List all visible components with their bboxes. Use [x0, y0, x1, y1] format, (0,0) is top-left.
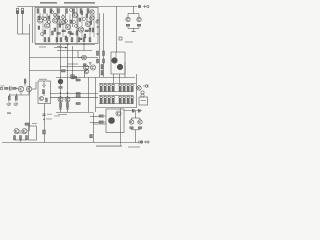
transistor Q32: [22, 129, 27, 134]
transistor Qf23: [44, 18, 47, 21]
wire mid vertical v67: [67, 44, 69, 112]
label under box mid: [57, 46, 62, 47]
wire mid vertical v84: [84, 71, 86, 78]
wire box internal v5: [72, 13, 74, 27]
wire mid rail F top output bus: [56, 77, 135, 79]
node dot G1: [60, 92, 61, 93]
wire array row1 bottom bus: [99, 91, 134, 93]
transistor output T2 with emitter resistor: [104, 84, 107, 91]
wire preamp column 7: [81, 14, 83, 37]
wire left input line R: [22, 13, 24, 34]
transistor output T5 with emitter resistor: [119, 84, 122, 91]
label x44: [46, 118, 52, 121]
resistor top row R1: [37, 9, 39, 14]
wire right rail lower: [136, 74, 138, 108]
resistor Rf16: [38, 26, 40, 29]
resistor R33: [99, 121, 103, 123]
wire array drop: [127, 82, 129, 85]
wire preamp column 4: [62, 14, 64, 37]
wire Q11 pair join: [128, 26, 139, 31]
resistor top row R5: [66, 9, 68, 14]
diode D2: [79, 38, 82, 40]
wire top supply rail: [17, 6, 137, 8]
resistor R22: [67, 103, 69, 107]
label mid rail D: [67, 64, 78, 65]
wire left input line L: [17, 13, 19, 34]
inductor L1: [141, 91, 144, 97]
transistor Q4: [59, 19, 64, 24]
wire bl wiring: [14, 128, 30, 142]
resistor bottom row Rb7: [78, 38, 80, 42]
transistor output B5 with emitter resistor: [119, 96, 122, 103]
wire mid rail G: [50, 93, 98, 95]
resistor R19: [101, 71, 103, 76]
transistor Qf2: [62, 16, 65, 19]
transistor Qf12: [70, 9, 73, 12]
transistor output T1 with emitter resistor: [100, 84, 103, 91]
resistor Rf3: [70, 20, 72, 23]
resistor bottom row Rb6: [71, 38, 73, 42]
wire input chain: [16, 88, 19, 90]
wire servo line 2: [90, 122, 99, 124]
resistor top row R3: [50, 9, 52, 14]
transistor output B4 with emitter resistor: [112, 96, 115, 103]
transistor output T3 with emitter resistor: [108, 84, 111, 91]
resistor bottom row Rb5: [66, 38, 68, 42]
wire preamp column 9: [93, 14, 95, 37]
wire box internal v4: [65, 13, 67, 24]
transistor Q19 pre-driver: [65, 97, 70, 102]
resistor top row R4: [58, 9, 60, 14]
diode D8 cross: [66, 108, 69, 110]
label mid bottom: [54, 115, 60, 118]
label under rail I: [58, 113, 67, 116]
node mid junction 1: [67, 43, 68, 44]
transistor Q3: [52, 18, 57, 23]
wire array row2 bottom bus: [99, 103, 134, 105]
connector speaker output: [143, 85, 148, 88]
wire vas vertical 2: [103, 13, 105, 77]
box bias network outline: [38, 81, 51, 104]
resistor bottom row Rb8: [83, 38, 85, 42]
wire mid vertical v72: [72, 46, 74, 78]
capacitor C8 polarity: [132, 111, 134, 113]
node dot H1: [60, 96, 61, 97]
transistor Q2: [44, 23, 49, 28]
wire feedback arrow: [54, 47, 67, 49]
resistor R20: [72, 76, 77, 78]
capacitor C2: [119, 37, 133, 43]
capacitor C1: [70, 33, 73, 35]
transistor Q30: [138, 120, 142, 124]
wire mid rail H: [50, 96, 98, 98]
transistor Q15: [90, 65, 95, 70]
wire bottom crossing: [120, 142, 122, 146]
resistor Rf7: [90, 21, 92, 24]
capacitor C4 tick: [97, 26, 100, 28]
resistor R41: [76, 31, 78, 35]
wire mid vertical v60: [60, 44, 62, 112]
wire vas link: [78, 51, 82, 58]
transistor Q20: [84, 69, 88, 73]
transistor Q24 driver: [112, 58, 118, 64]
node dot H2: [67, 96, 68, 97]
resistor top row R2: [44, 9, 46, 14]
transistor Qf10: [75, 25, 78, 28]
wire preamp divider 2: [56, 8, 58, 44]
resistor R11: [65, 36, 67, 40]
capacitor C9 polarity: [138, 111, 140, 113]
resistor Rf14: [48, 16, 50, 19]
capacitor C6: [10, 86, 12, 90]
wire array drop: [100, 82, 102, 85]
node mid junction 2: [83, 43, 84, 44]
wire preamp column 1: [42, 14, 44, 37]
resistor R12: [84, 34, 86, 38]
resistor Rf19: [54, 28, 56, 31]
transistor Q14: [83, 65, 88, 70]
box bl outline: [29, 126, 37, 140]
wire right rail upper: [116, 7, 118, 53]
resistor Rf1: [58, 16, 60, 19]
ground bar zener D9: [7, 104, 12, 105]
resistor R26: [76, 103, 80, 105]
transistor Q22 diff pair B: [26, 86, 31, 91]
resistor R13: [92, 28, 94, 32]
box zobel outline: [139, 97, 148, 105]
transistor Q18 pre-driver: [58, 97, 63, 102]
diode D6: [59, 87, 62, 89]
capacitor C10 tick: [43, 114, 46, 116]
resistor R10: [52, 31, 54, 35]
wire Q11 pair stub: [128, 7, 139, 18]
wire box internal v6: [86, 13, 88, 21]
resistor R29 tail: [24, 80, 26, 84]
transistor output B6 with emitter resistor: [123, 96, 126, 103]
resistor R37: [14, 136, 16, 140]
transistor output T7 with emitter resistor: [127, 84, 130, 91]
diode D4: [103, 59, 105, 63]
connector output terminal: [139, 141, 149, 144]
wire x44 branch: [44, 104, 46, 143]
wire servo feed: [93, 123, 106, 125]
resistor R31: [46, 98, 48, 102]
resistor R14 emitter: [126, 24, 129, 26]
resistor R23: [76, 79, 80, 81]
resistor bottom row Rb9: [89, 38, 91, 42]
resistor bottom row Rb3: [56, 38, 58, 42]
label top box title left: [40, 2, 57, 3]
transistor Q5: [65, 24, 70, 29]
wire array drop: [123, 82, 125, 85]
transistor Q26: [137, 86, 141, 90]
box servo outline: [106, 109, 124, 133]
wire driver internals: [116, 52, 125, 78]
wire diff out: [32, 82, 36, 89]
wire mid rail C: [30, 57, 99, 59]
transistor Q21 diff pair A: [18, 86, 23, 91]
node dot G2: [67, 92, 68, 93]
wire array drop: [104, 82, 106, 85]
capacitor C9: [139, 109, 141, 112]
resistor R34 emitter: [130, 127, 133, 129]
resistor R42: [62, 70, 66, 72]
box preamp module outline: [35, 8, 98, 44]
resistor R18: [101, 65, 103, 70]
transistor output T4 with emitter resistor: [112, 84, 115, 91]
resistor R43: [83, 64, 86, 66]
resistor R28: [13, 87, 17, 89]
capacitor C8: [133, 109, 135, 112]
diode D12: [68, 32, 71, 34]
label top box title right: [64, 2, 95, 3]
transistor Q10: [90, 16, 94, 20]
label near x44 top: [47, 113, 52, 116]
transistor Q17: [58, 79, 63, 84]
wire array feed row1: [113, 74, 115, 83]
resistor R17: [103, 51, 105, 56]
wire servo link: [104, 116, 106, 122]
diode D3: [97, 59, 99, 63]
connector J2 input jack B: [21, 8, 24, 13]
diode D5 arrow: [89, 63, 91, 65]
label bottom caption: [96, 146, 122, 147]
connector input RCA: [0, 86, 4, 90]
wire box internal v2: [46, 13, 48, 23]
resistor R38: [20, 136, 22, 140]
wire bottom ground rail: [2, 142, 139, 144]
wire box internal h1: [37, 16, 46, 18]
capacitor C3 tick: [96, 20, 99, 23]
wire box internal h2: [57, 23, 68, 25]
wire mid rail I: [56, 112, 93, 114]
transistor output T6 with emitter resistor: [123, 84, 126, 91]
wire diff emitters: [9, 92, 29, 96]
transistor Q6: [72, 12, 77, 17]
transistor Q9: [90, 10, 94, 14]
wire mid vertical v88: [88, 78, 90, 113]
wire servo line 1: [90, 116, 99, 118]
diode D11: [43, 85, 46, 88]
resistor top row R6: [73, 9, 75, 14]
capacitor C11: [43, 130, 46, 134]
zener D9: [8, 96, 11, 104]
wire mid rail D: [60, 66, 90, 68]
label under box left: [39, 47, 46, 48]
wire array row1 top bus: [99, 83, 134, 85]
transistor Qf15: [51, 11, 54, 14]
capacitor C5 tick: [97, 33, 100, 35]
wire preamp column 2: [49, 14, 51, 37]
transistor Q1: [37, 18, 42, 23]
transistor Q13: [82, 55, 87, 60]
resistor R32: [99, 115, 103, 117]
wire br top line: [124, 110, 142, 112]
wire preamp internal divider: [76, 8, 78, 44]
node x44 junction: [43, 119, 44, 120]
wire mid rail J: [96, 107, 137, 109]
resistor R24: [76, 93, 80, 95]
diode D1: [57, 33, 60, 35]
wire array drop: [119, 82, 121, 85]
transistor Q27 servo: [109, 118, 115, 124]
label bl note: [7, 113, 11, 114]
resistor Rf11: [89, 28, 91, 31]
wire servo vertical: [120, 108, 122, 143]
wire bottom mid vertical: [93, 113, 95, 143]
wire mid rail A: [35, 44, 95, 46]
transistor Q7: [78, 27, 83, 32]
transistor output B7 with emitter resistor: [127, 96, 130, 103]
capacitor C12: [85, 30, 88, 32]
wire output node link: [134, 83, 137, 88]
resistor Rf21: [38, 16, 40, 19]
wire array drop: [112, 82, 114, 85]
wire array drop: [131, 82, 133, 85]
wire array row2 top bus: [99, 95, 134, 97]
transistor Q25 driver: [117, 64, 123, 70]
wire secondary left rail: [32, 7, 34, 43]
label bottom right caption: [128, 147, 140, 148]
wire Q29 pair stub: [132, 111, 141, 120]
resistor top row R7: [80, 9, 82, 14]
resistor Rf5: [79, 18, 81, 21]
connector power terminal +V: [138, 5, 149, 8]
resistor R15 emitter: [137, 24, 140, 26]
diode D7 cross: [59, 108, 62, 110]
transistor Qf22: [54, 14, 57, 17]
label zobel: [141, 99, 147, 102]
resistor R36: [25, 123, 29, 125]
transistor Qf6: [83, 18, 86, 21]
connector J1 input jack A: [16, 8, 19, 13]
wire vas drop 1: [83, 44, 85, 51]
wire array drop: [108, 82, 110, 85]
label R36: [32, 122, 37, 125]
transistor output B3 with emitter resistor: [108, 96, 111, 103]
resistor R21: [60, 103, 62, 107]
transistor Q29: [129, 120, 133, 124]
wire diff base rail: [24, 78, 26, 86]
transistor output B8 with emitter resistor: [131, 96, 134, 103]
resistor R39: [26, 136, 28, 140]
box driver module outline: [111, 52, 125, 74]
resistor Rf9: [59, 24, 61, 27]
wire bias internal: [43, 81, 45, 96]
wire array feed row2: [119, 74, 121, 83]
transistor Qf4: [73, 21, 76, 24]
transistor output T8 with emitter resistor: [131, 84, 134, 91]
transistor Qf8: [65, 20, 68, 23]
wire mid rail E: [30, 70, 85, 72]
resistor Rf20: [86, 14, 88, 17]
transistor Q16: [70, 74, 75, 79]
transistor Q23: [40, 97, 44, 101]
wire mid rail B: [57, 50, 92, 52]
resistor R27: [5, 87, 9, 89]
resistor top row R8: [87, 9, 89, 14]
transistor Q8: [85, 21, 90, 26]
transistor Q12: [137, 17, 141, 21]
wire box internal v1: [39, 13, 41, 18]
ground bar zener D10: [14, 104, 19, 105]
capacitor C7: [90, 135, 93, 138]
wire Q29 pair join: [132, 129, 141, 143]
transistor Q28 servo: [116, 111, 121, 116]
wire input joining segment: [18, 33, 30, 35]
resistor R16: [97, 51, 99, 56]
label bias box: [39, 79, 47, 80]
wire array left drop: [95, 78, 97, 113]
resistor R35 emitter: [138, 127, 141, 129]
resistor R30: [43, 90, 45, 94]
wire preamp column 6: [77, 14, 79, 37]
transistor output B2 with emitter resistor: [104, 96, 107, 103]
resistor R9: [44, 30, 46, 34]
transistor Qf17: [41, 33, 44, 36]
resistor Rf13: [81, 11, 83, 14]
resistor bottom row Rb4: [60, 38, 62, 42]
resistor bottom row Rb1: [44, 38, 46, 42]
transistor Qf18: [48, 21, 51, 24]
wire main left rail: [29, 24, 31, 128]
resistor R25: [76, 96, 80, 98]
zener D10: [15, 96, 18, 104]
resistor R40: [62, 30, 65, 32]
wire box internal v3: [54, 13, 56, 18]
resistor bottom row Rb2: [48, 38, 50, 42]
transistor output B1 with emitter resistor: [100, 96, 103, 103]
wire preamp column 8: [89, 14, 91, 37]
wire preamp column 3: [57, 14, 59, 37]
wire vas vertical 1: [99, 13, 101, 77]
transistor Q11: [126, 17, 130, 21]
wire preamp column 5: [69, 14, 71, 37]
transistor Q31: [14, 129, 19, 134]
